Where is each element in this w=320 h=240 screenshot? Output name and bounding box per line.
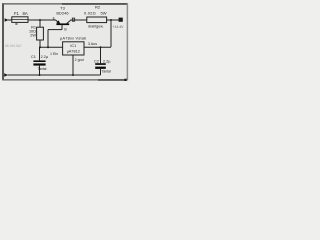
wire R2 to output terminal bbox=[107, 19, 119, 21]
C1 lead bottom bbox=[39, 66, 41, 75]
C1 lead top bbox=[39, 47, 41, 60]
base wire left bbox=[48, 29, 62, 31]
wire IC pin3 to output node bbox=[84, 46, 111, 48]
svg-text:+14.4V: +14.4V bbox=[113, 25, 125, 29]
svg-text:µA7812: µA7812 bbox=[67, 49, 80, 53]
IC gnd lead bbox=[72, 55, 74, 75]
border frame bottom right darker bbox=[98, 79, 127, 81]
transistor T3 emitter diagonal bbox=[55, 20, 60, 24]
speck under fuse bbox=[15, 23, 17, 25]
ground rail bbox=[8, 74, 101, 76]
collector diagonal bbox=[67, 20, 72, 24]
svg-text:BD246: BD246 bbox=[56, 11, 69, 16]
node dot C2 tap bbox=[100, 46, 102, 48]
ground terminal triangle bbox=[4, 73, 8, 77]
capacitor C1 plates bbox=[33, 60, 45, 62]
svg-text:2W: 2W bbox=[30, 34, 36, 38]
input terminal + arrow (top left) bbox=[5, 18, 9, 22]
svg-text:2 gnd: 2 gnd bbox=[75, 58, 84, 62]
svg-text:C2: C2 bbox=[94, 59, 99, 63]
R1 bottom lead bbox=[39, 40, 41, 47]
output wire down bbox=[110, 20, 112, 47]
node dot IC gnd bbox=[72, 74, 74, 76]
svg-text:R2: R2 bbox=[95, 4, 101, 9]
svg-text:µA78xx Vstab: µA78xx Vstab bbox=[60, 37, 87, 41]
svg-text:Tantal: Tantal bbox=[102, 70, 111, 74]
resistor R1 bbox=[37, 27, 44, 40]
border frame left bbox=[2, 3, 4, 80]
svg-text:Tantal: Tantal bbox=[37, 67, 46, 71]
svg-text:2.2µ: 2.2µ bbox=[103, 59, 111, 63]
svg-text:86 044 5A7: 86 044 5A7 bbox=[5, 44, 22, 48]
border frame top right darker bbox=[62, 3, 128, 5]
svg-text:C1: C1 bbox=[31, 55, 36, 59]
border corner blob bbox=[124, 79, 127, 81]
C2 lead top bbox=[100, 47, 102, 63]
base wire down to input line of IC bbox=[47, 30, 49, 48]
transistor base bar bbox=[56, 23, 69, 25]
border frame bottom bbox=[2, 79, 127, 81]
pin letter C bbox=[72, 18, 74, 21]
output node dot bbox=[110, 19, 112, 21]
border frame top bbox=[2, 3, 127, 5]
wire fuse to emitter bbox=[28, 19, 55, 21]
svg-text:8A: 8A bbox=[23, 11, 28, 16]
R1 lead down bbox=[39, 20, 41, 27]
paper background bbox=[0, 0, 130, 85]
fuse F1 bbox=[12, 17, 28, 23]
svg-text:F1: F1 bbox=[14, 11, 20, 16]
border frame fill bbox=[3, 4, 127, 80]
svg-text:3 Aus: 3 Aus bbox=[88, 42, 97, 46]
svg-text:5W: 5W bbox=[101, 10, 107, 15]
svg-text:1 Ein: 1 Ein bbox=[50, 52, 58, 56]
wire input to fuse bbox=[8, 19, 12, 21]
capacitor C2 plates bbox=[95, 63, 106, 65]
IC1 box bbox=[63, 42, 84, 55]
C2 lead bottom bbox=[100, 69, 102, 75]
output terminal square bbox=[119, 18, 123, 22]
node dot base net bbox=[47, 46, 49, 48]
resistor R2 bbox=[87, 17, 107, 23]
wire collector to R2 bbox=[71, 19, 87, 21]
svg-text:0.02Ω: 0.02Ω bbox=[84, 10, 96, 15]
svg-text:2.2µ: 2.2µ bbox=[41, 55, 49, 59]
node dot C1 gnd bbox=[39, 74, 41, 76]
base lead down bbox=[61, 25, 63, 30]
node dot R1 tap bbox=[39, 19, 41, 21]
wire y47 input to IC pin1 bbox=[40, 46, 63, 48]
svg-text:drahtgew.: drahtgew. bbox=[88, 25, 104, 29]
svg-text:IC1: IC1 bbox=[70, 44, 76, 48]
emitter arrow head bbox=[56, 20, 60, 24]
node dot R1/C1 bbox=[39, 46, 41, 48]
border frame right bbox=[126, 3, 128, 80]
